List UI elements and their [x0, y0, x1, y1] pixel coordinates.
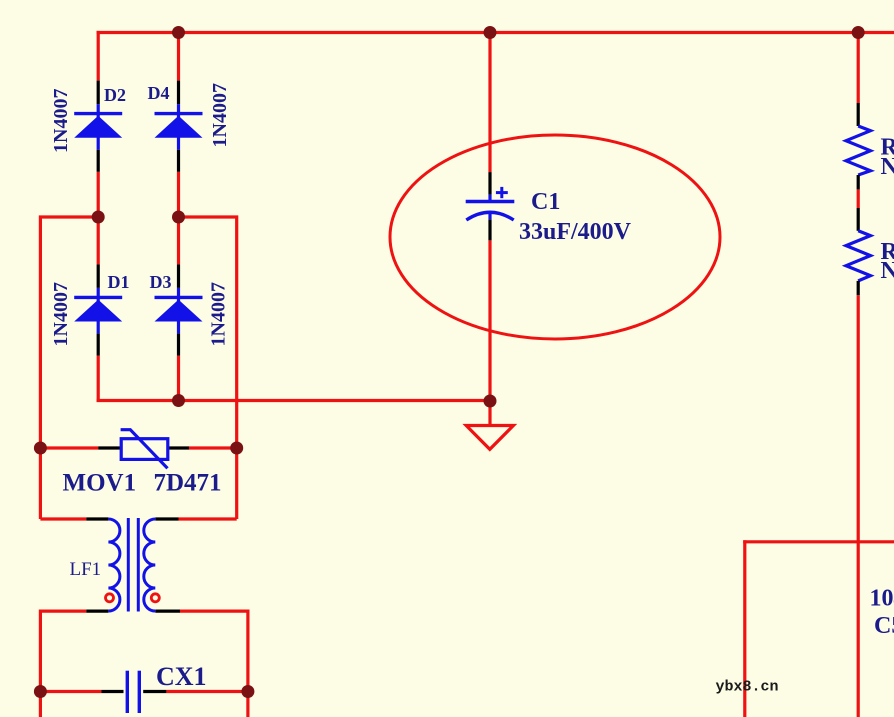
wire: D1 column top segment — [97, 217, 100, 264]
wire: CX1 row left segment — [40, 690, 101, 693]
svg-text:C5: C5 — [874, 613, 894, 639]
junction dot CX1 left — [34, 685, 47, 698]
wire: bottom-right vertical net — [743, 540, 746, 717]
resistor R(bottom) — [846, 208, 871, 295]
wire: D3 column bottom segment — [177, 356, 180, 401]
wire: MOV row right segment — [189, 446, 237, 449]
svg-text:NT: NT — [881, 154, 894, 180]
junction dot top right column — [852, 26, 865, 39]
capacitor CX1 — [101, 671, 166, 713]
junction dot CX1 right — [241, 685, 254, 698]
svg-text:C1: C1 — [531, 189, 560, 215]
wire: top bus (AC+ rail) — [97, 31, 894, 34]
svg-text:D4: D4 — [148, 83, 170, 103]
wire: LF1 top-right segment — [179, 517, 237, 520]
wire: LF1 bottom-right segment with corner — [180, 611, 248, 717]
wire: D4 column bottom segment — [177, 172, 180, 217]
common-mode choke LF1 — [86, 518, 180, 612]
junction dot MOV left — [34, 442, 47, 455]
junction dot mid-right — [172, 211, 185, 224]
junction dot bottom bridge D3 — [172, 394, 185, 407]
wire: bottom-right horizontal net — [743, 540, 894, 543]
wire: left rail LF1 to CX1 and bottom edge — [39, 610, 42, 717]
wire: D3 column top segment — [177, 217, 180, 264]
svg-text:ybx8.cn: ybx8.cn — [716, 679, 779, 696]
wire: LF1 top-left segment — [40, 517, 86, 520]
varistor MOV1 — [98, 430, 189, 469]
svg-text:7D471: 7D471 — [154, 470, 222, 497]
wire: C1 column top segment — [488, 33, 491, 173]
svg-text:1N4007: 1N4007 — [209, 83, 231, 147]
wire: mid-right branch to AC input N — [179, 217, 237, 519]
LF1 polarity dot left — [106, 594, 114, 602]
wire: D2 column top segment — [97, 31, 100, 81]
wire: ground stub — [488, 401, 491, 426]
resistor R(top) — [846, 103, 871, 189]
wire: right column top segment — [857, 33, 860, 104]
svg-text:NT: NT — [881, 258, 894, 284]
wire: CX1 row right segment — [166, 690, 248, 693]
wire: right column between resistors — [857, 189, 860, 208]
wire: D4 column top segment — [177, 33, 180, 81]
wire: mid-left branch to AC input L — [40, 217, 98, 519]
svg-text:D3: D3 — [150, 272, 172, 292]
ground symbol — [466, 426, 513, 450]
svg-text:LF1: LF1 — [70, 559, 102, 580]
svg-text:33uF/400V: 33uF/400V — [519, 219, 632, 245]
svg-text:1N4007: 1N4007 — [50, 282, 72, 346]
LF1 polarity dot right — [151, 594, 159, 602]
junction dot mid-left — [92, 211, 105, 224]
svg-text:MOV1: MOV1 — [63, 470, 137, 497]
svg-text:D2: D2 — [104, 85, 126, 105]
wire: D2 column bottom segment — [97, 172, 100, 217]
diode D1 — [74, 264, 122, 355]
wire: bottom bridge bus (GND rail) — [97, 399, 490, 402]
capacitor C1 (polarized) — [466, 172, 515, 240]
junction dot top C1 — [484, 26, 497, 39]
svg-text:1N4007: 1N4007 — [208, 282, 230, 346]
diode D4 — [155, 81, 203, 172]
svg-text:D1: D1 — [108, 272, 130, 292]
wire: MOV row left segment — [40, 446, 98, 449]
junction dot ground node — [484, 395, 497, 408]
svg-text:1N4007: 1N4007 — [50, 89, 72, 153]
diode D2 — [74, 81, 122, 172]
wire: D1 column bottom segment — [97, 356, 100, 402]
junction dot MOV right — [230, 442, 243, 455]
svg-text:104: 104 — [870, 586, 894, 612]
wire: right column lower run — [857, 295, 860, 717]
svg-text:CX1: CX1 — [156, 662, 207, 691]
diode D3 — [155, 264, 203, 355]
junction dot top D4 — [172, 26, 185, 39]
highlight ellipse around C1 — [390, 135, 720, 339]
wire: LF1 bottom-left segment — [40, 609, 86, 612]
wire: C1 column bottom segment — [488, 240, 491, 401]
